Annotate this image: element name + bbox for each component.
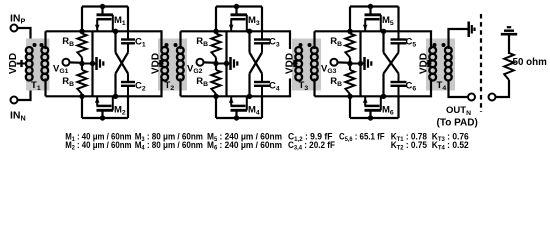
svg-text:C6: C6 (406, 81, 417, 93)
node cross bottom stage2 (247, 94, 252, 99)
svg-text:RB: RB (196, 76, 208, 88)
transistor M2 drain stub (101, 110, 103, 118)
node bypass junction stage2 (224, 61, 229, 66)
wire stage2 bottom rail (216, 117, 262, 119)
terminal V_G2 (197, 59, 204, 66)
ground at load (501, 33, 517, 36)
transformer T2 core box (158, 39, 187, 91)
transformer T4 polarity dots (433, 43, 437, 47)
svg-text:C3: C3 (269, 37, 280, 49)
terminal load (489, 94, 496, 101)
transistor M5 gate lead with arrow (364, 19, 366, 31)
transformer T2 polarity dots (165, 43, 169, 47)
VDD center-tap lead and bar at T3 (293, 63, 298, 65)
node gate-bottom stage1 (79, 94, 84, 99)
wire stage3 bypass vertical (359, 31, 361, 96)
wire stage3 bottom gate/drain rail (315, 95, 399, 97)
svg-text:C2: C2 (135, 81, 146, 93)
wire stage3 top rail (350, 5, 399, 7)
wire IN_N to T1 primary bottom (17, 81, 30, 101)
wire stage3 bottom drain rail to T4 primary (399, 79, 432, 97)
svg-text:M6 : 240 μm / 60nm: M6 : 240 μm / 60nm (207, 140, 282, 152)
wire cross vertical bottom stage3 (382, 74, 384, 97)
transistor M4 channel bar (231, 109, 248, 112)
node M1 drain on top rail (100, 4, 105, 9)
resistor R_B lower stage1 (80, 70, 83, 94)
transformer T3 secondary winding (311, 47, 318, 54)
transistor M6 drain stub (369, 110, 371, 118)
wire T1 secondary top lead (44, 31, 46, 49)
node cross bottom stage3 (381, 94, 386, 99)
svg-text:M1: M1 (114, 15, 126, 27)
transistor M5 drain stub (369, 7, 371, 15)
svg-text:C5: C5 (406, 37, 417, 49)
resistor 50 ohm (504, 53, 514, 80)
resistor R_B upper stage1 (80, 34, 83, 58)
node M5 drain on top rail (368, 4, 373, 9)
wire load terminal to resistor (495, 80, 509, 97)
wire cross vertical bottom stage2 (248, 74, 250, 97)
wire T1 secondary bottom lead (44, 79, 46, 97)
transistor M4 drain stub (235, 110, 237, 118)
transistor M6 gate lead with arrow (364, 96, 366, 106)
capacitor C2 (127, 86, 129, 97)
svg-text:M2 : 40 μm / 60nm: M2 : 40 μm / 60nm (65, 140, 131, 152)
svg-text:INP: INP (10, 13, 26, 26)
transformer T3 primary winding (295, 47, 302, 54)
svg-text:KT4 : 0.52: KT4 : 0.52 (432, 140, 469, 152)
transformer T2 primary winding (161, 47, 168, 54)
svg-text:OUTN: OUTN (446, 105, 471, 117)
node cross top stage1 (113, 29, 118, 34)
transistor M2 gate lead with arrow (96, 96, 98, 106)
wire stage1 bottom rail (82, 117, 128, 119)
wire stage3 bottom rail (350, 117, 399, 119)
wire stage1 bottom gate/drain rail (46, 95, 129, 97)
transformer T4 primary winding (429, 47, 436, 54)
svg-text:M5: M5 (382, 15, 394, 27)
transistor M1 gate lead with arrow (96, 19, 98, 31)
node M3 drain on top rail (234, 4, 239, 9)
svg-text:RB: RB (62, 76, 74, 88)
wire cross vertical top stage3 (382, 31, 384, 52)
transistor M6 gate bar (365, 105, 380, 108)
VDD center-tap lead and bar at T4 (427, 63, 432, 65)
resistor R_B upper stage2 (214, 34, 217, 58)
node gate-bottom stage2 (213, 94, 218, 99)
svg-text:M4: M4 (248, 105, 260, 117)
terminal IN_N (11, 97, 18, 104)
svg-text:C5,6 : 65.1 fF: C5,6 : 65.1 fF (339, 131, 385, 143)
ground bypass stage2 (229, 57, 232, 70)
svg-text:RB: RB (62, 36, 74, 48)
wire cross vertical top stage1 (114, 31, 116, 52)
node gate-top stage3 (347, 29, 352, 34)
node gate-top stage2 (213, 29, 218, 34)
terminal V_G3 (331, 59, 338, 66)
VDD center-tap lead and bar at T1 (17, 63, 26, 65)
wire T4 secondary top to ground (449, 29, 468, 49)
terminal IN_P (11, 25, 18, 32)
capacitor C4 (261, 86, 263, 97)
node bypass junction stage1 (90, 61, 95, 66)
wire stage1 top gate/drain rail (46, 30, 129, 32)
svg-text:C4: C4 (269, 81, 280, 93)
transistor M2 drain lead (112, 96, 114, 110)
terminal V_G1 (63, 59, 70, 66)
capacitor C5 (398, 31, 400, 39)
node VG tap stage2 (213, 61, 218, 66)
transistor M4 drain lead (246, 96, 248, 110)
wire cross diagonal B stage1 (116, 53, 129, 74)
transistor M3 channel bar (231, 13, 248, 16)
wire T2 secondary bottom lead (179, 79, 181, 97)
wire cross vertical bottom stage1 (114, 74, 116, 97)
transformer T4 secondary winding (445, 47, 452, 54)
ground bypass stage3 (363, 57, 366, 70)
svg-text:M3: M3 (248, 15, 260, 27)
transistor M5 channel bar (365, 13, 382, 16)
svg-text:RB: RB (330, 36, 342, 48)
node cross top stage3 (381, 29, 386, 34)
wire VG bypass stub stage2 (216, 63, 230, 65)
transistor M4 gate lead with arrow (230, 96, 232, 106)
resistor R_B lower stage2 (214, 70, 217, 94)
capacitor C1 (127, 31, 129, 39)
transistor M1 drain lead (112, 15, 114, 32)
wire stage2 right vertical top (261, 7, 263, 32)
wire stage3 right vertical bottom (397, 96, 399, 118)
dashed chip boundary (480, 14, 482, 112)
wire cross vertical top stage2 (248, 31, 250, 52)
wire VG bypass stub stage3 (350, 63, 364, 65)
svg-text:M6: M6 (382, 105, 394, 117)
transformer T1 core box (26, 39, 50, 91)
transistor M3 drain stub (235, 7, 237, 15)
wire stage1 top drain rail to T2 primary (128, 31, 162, 49)
transistor M4 gate bar (231, 105, 246, 108)
wire stage2 bottom gate/drain rail (181, 95, 263, 97)
svg-text:KT2 : 0.75: KT2 : 0.75 (391, 140, 427, 152)
wire stage3 left vertical (349, 7, 351, 119)
node bypass junction stage3 (358, 61, 363, 66)
transistor M3 gate lead with arrow (230, 19, 232, 31)
svg-text:RB: RB (330, 76, 342, 88)
wire resistor to ground (508, 36, 510, 55)
svg-text:M2: M2 (114, 105, 126, 117)
wire cross diagonal B stage3 (384, 53, 399, 74)
transformer T2 secondary winding (177, 47, 184, 54)
transformer T1 primary winding (26, 47, 33, 54)
node VG tap stage1 (79, 61, 84, 66)
transistor M6 drain lead (380, 96, 382, 110)
transistor M6 channel bar (365, 109, 382, 112)
wire stage1 bottom drain rail to T2 primary (128, 79, 162, 97)
wire stage1 bypass vertical (91, 31, 93, 96)
wire T3 secondary bottom lead (313, 79, 315, 97)
transistor M2 gate bar (97, 105, 112, 108)
node M6 drain on bottom rail (368, 115, 373, 120)
transistor M3 gate bar (231, 18, 246, 21)
wire VG bypass stub stage1 (82, 63, 96, 65)
wire stage2 bypass vertical (225, 31, 227, 96)
node M2 drain on bottom rail (100, 115, 105, 120)
node gate-top stage1 (79, 29, 84, 34)
resistor R_B upper stage3 (348, 34, 351, 58)
transformer T3 core box (292, 39, 321, 91)
transistor M2 channel bar (97, 109, 114, 112)
wire stage2 left vertical (215, 7, 217, 119)
wire stage2 top drain rail to T3 primary (262, 31, 290, 49)
wire stage3 top gate/drain rail (315, 30, 399, 32)
VDD center-tap lead and bar at T2 (159, 63, 164, 65)
ground bypass stage1 (95, 57, 98, 70)
transformer T3 polarity dots (299, 43, 303, 47)
resistor R_B lower stage3 (348, 70, 351, 94)
wire stage2 right vertical bottom (261, 96, 263, 118)
terminal OUT_N (468, 94, 475, 101)
transistor M5 gate bar (365, 18, 380, 21)
wire stage1 top rail (82, 5, 128, 7)
wire T3 secondary top lead (313, 31, 315, 49)
wire stage3 top drain rail to T4 primary (399, 31, 432, 49)
svg-text:RB: RB (196, 36, 208, 48)
transistor M5 drain lead (380, 15, 382, 32)
wire cross diagonal A stage2 (250, 53, 263, 74)
svg-text:M4 : 80 μm / 60nm: M4 : 80 μm / 60nm (135, 140, 203, 152)
wire stage1 left vertical (81, 7, 83, 119)
node VG tap stage3 (347, 61, 352, 66)
wire stage2 top rail (216, 5, 262, 7)
transistor M3 drain lead (246, 15, 248, 32)
node cross top stage2 (247, 29, 252, 34)
wire cross diagonal A stage3 (384, 53, 399, 74)
svg-text:C1: C1 (135, 37, 146, 49)
wire stage2 top gate/drain rail (181, 30, 263, 32)
transformer T1 polarity dots (33, 43, 37, 47)
svg-text:INN: INN (10, 110, 26, 123)
node M4 drain on bottom rail (234, 115, 239, 120)
wire cross diagonal B stage2 (250, 53, 263, 74)
node cross bottom stage1 (113, 94, 118, 99)
wire cross diagonal A stage1 (116, 53, 129, 74)
node gate-bottom stage3 (347, 94, 352, 99)
wire stage2 bottom drain rail to T3 primary (262, 79, 290, 97)
transistor M1 drain stub (101, 7, 103, 15)
wire stage3 right vertical top (397, 7, 399, 32)
wire T4 secondary bottom to OUT_N (449, 81, 469, 98)
svg-text:(To PAD): (To PAD) (437, 118, 478, 129)
svg-text:50 ohm: 50 ohm (513, 57, 548, 68)
wire stage1 right vertical bottom (127, 96, 129, 118)
wire IN_P to T1 primary top (17, 28, 30, 47)
transformer T4 core box (426, 39, 455, 91)
ground at T4 secondary top (467, 22, 470, 38)
capacitor C6 (398, 86, 400, 97)
transistor M1 gate bar (97, 18, 112, 21)
wire T2 secondary top lead (179, 31, 181, 49)
transistor M1 channel bar (97, 13, 114, 16)
transformer T1 secondary winding (41, 47, 48, 54)
wire stage1 right vertical top (127, 7, 129, 32)
capacitor C3 (261, 31, 263, 39)
